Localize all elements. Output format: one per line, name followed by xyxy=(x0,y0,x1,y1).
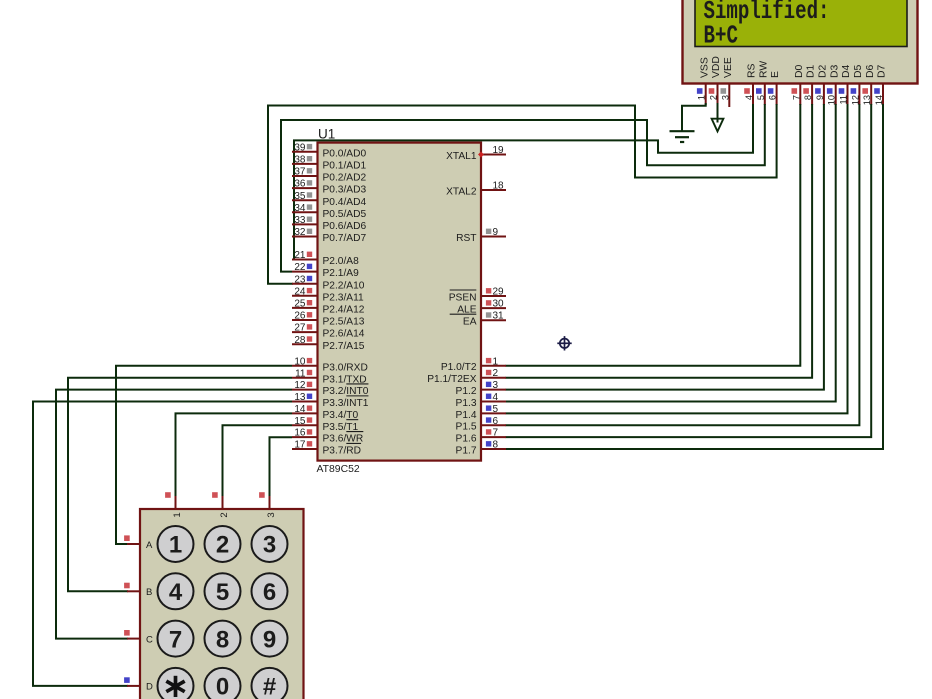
power terminal (down arrow) xyxy=(712,119,724,132)
LCD pin 10 (D3) xyxy=(835,84,837,105)
U1 left pin 27 (P2.6/A14) xyxy=(292,331,318,333)
chip U1 AT89C52 body xyxy=(318,143,482,461)
svg-text:21: 21 xyxy=(294,250,306,261)
LCD pin 14 (D7) xyxy=(882,84,884,105)
wire D4: LCD pin11 to U1 P1.4 xyxy=(506,104,848,413)
wire P3.6 to keypad col 3 xyxy=(270,437,293,497)
svg-text:P1.0/T2: P1.0/T2 xyxy=(441,362,477,373)
U1 left pin 35 (P0.4/AD4) xyxy=(292,199,318,201)
svg-text:D6: D6 xyxy=(865,64,876,78)
svg-text:P2.3/A11: P2.3/A11 xyxy=(323,292,364,303)
svg-text:3: 3 xyxy=(720,95,730,100)
svg-text:P0.3/AD3: P0.3/AD3 xyxy=(323,185,367,196)
svg-text:B: B xyxy=(146,587,152,598)
svg-text:1: 1 xyxy=(697,95,707,100)
svg-text:9: 9 xyxy=(815,95,825,100)
svg-text:35: 35 xyxy=(294,191,306,202)
svg-text:1: 1 xyxy=(493,356,499,367)
svg-text:13: 13 xyxy=(294,392,306,403)
svg-text:2: 2 xyxy=(709,95,719,100)
svg-text:32: 32 xyxy=(294,227,306,238)
U1 left pin 10 (P3.0/RXD) xyxy=(292,365,318,367)
svg-text:P2.6/A14: P2.6/A14 xyxy=(323,329,365,340)
U1 right pin 18 (XTAL2) xyxy=(481,189,506,191)
svg-text:P1.2: P1.2 xyxy=(456,386,477,397)
U1 left pin 38 (P0.1/AD1) xyxy=(292,163,318,165)
svg-text:XTAL2: XTAL2 xyxy=(446,186,477,197)
keypad body xyxy=(140,509,304,699)
svg-text:P2.4/A12: P2.4/A12 xyxy=(323,305,365,316)
LCD pin 6 (E) xyxy=(776,84,778,105)
svg-text:18: 18 xyxy=(493,181,505,192)
svg-text:11: 11 xyxy=(839,95,849,105)
keypad button 7 xyxy=(158,621,194,657)
svg-text:1: 1 xyxy=(169,532,182,559)
svg-text:P0.0/AD0: P0.0/AD0 xyxy=(323,148,367,159)
U1 left pin 17 (P3.7/RD) xyxy=(292,448,318,450)
keypad row pin C xyxy=(127,638,140,640)
U1 right pin 30 (ALE) xyxy=(481,307,506,309)
svg-text:P1.7: P1.7 xyxy=(456,445,477,456)
svg-text:25: 25 xyxy=(294,299,306,310)
svg-text:P3.0/RXD: P3.0/RXD xyxy=(323,362,368,373)
svg-text:6: 6 xyxy=(768,95,778,100)
svg-text:P0.1/AD1: P0.1/AD1 xyxy=(323,161,367,172)
U1 right pin 6 (P1.5) xyxy=(481,424,506,426)
keypad button 2 xyxy=(205,526,241,562)
svg-text:29: 29 xyxy=(493,287,505,298)
LCD pin 11 (D4) xyxy=(847,84,849,105)
LCD pin 3 (VEE) xyxy=(728,84,730,107)
svg-text:4: 4 xyxy=(493,392,499,403)
svg-text:P2.2/A10: P2.2/A10 xyxy=(323,280,365,291)
LCD pin 4 (RS) xyxy=(752,84,754,105)
svg-text:A: A xyxy=(146,540,153,551)
svg-text:3: 3 xyxy=(263,532,276,559)
svg-text:P1.4: P1.4 xyxy=(456,410,477,421)
keypad row pin D xyxy=(127,685,140,687)
wire RS: LCD pin4 to U1 P2.0 xyxy=(294,104,753,260)
LCD pin 1 (VSS) xyxy=(705,84,707,105)
svg-text:7: 7 xyxy=(493,428,499,439)
svg-text:P0.5/AD5: P0.5/AD5 xyxy=(323,209,367,220)
svg-text:38: 38 xyxy=(294,155,306,166)
svg-text:12: 12 xyxy=(850,95,860,105)
svg-text:D3: D3 xyxy=(829,64,840,78)
svg-text:P1.6: P1.6 xyxy=(456,434,477,445)
svg-text:EA: EA xyxy=(463,317,477,328)
U1 left pin 28 (P2.7/A15) xyxy=(292,343,318,345)
svg-text:P3.3/INT1: P3.3/INT1 xyxy=(323,398,369,409)
svg-text:D0: D0 xyxy=(794,64,805,78)
svg-text:8: 8 xyxy=(216,626,229,653)
U1 left pin 25 (P2.4/A12) xyxy=(292,307,318,309)
keypad button 6 xyxy=(252,573,288,609)
svg-text:XTAL1: XTAL1 xyxy=(446,151,477,162)
keypad row pin B xyxy=(127,590,140,592)
keypad button 4 xyxy=(158,573,194,609)
wire P3.4 to keypad col 1 xyxy=(176,413,293,497)
svg-text:5: 5 xyxy=(756,95,766,100)
U1 right pin 7 (P1.6) xyxy=(481,436,506,438)
svg-text:22: 22 xyxy=(294,262,306,273)
svg-text:B+C: B+C xyxy=(704,20,739,50)
U1 right pin 5 (P1.4) xyxy=(481,412,506,414)
svg-text:30: 30 xyxy=(493,299,505,310)
keypad button 1 xyxy=(158,526,194,562)
svg-text:P1.5: P1.5 xyxy=(456,422,477,433)
svg-text:P0.4/AD4: P0.4/AD4 xyxy=(323,197,367,208)
U1 left pin 11 (P3.1/TXD) xyxy=(292,377,318,379)
svg-text:15: 15 xyxy=(294,416,306,427)
keypad button 3 xyxy=(252,526,288,562)
U1 left pin 16 (P3.6/WR) xyxy=(292,436,318,438)
LCD pin 9 (D2) xyxy=(823,84,825,105)
svg-text:P2.5/A13: P2.5/A13 xyxy=(323,317,365,328)
svg-text:16: 16 xyxy=(294,428,306,439)
keypad row pin A xyxy=(127,543,140,545)
wire D7: LCD pin14 to U1 P1.7 xyxy=(506,104,884,449)
wire RW: LCD pin5 to U1 P2.1 xyxy=(281,104,765,272)
svg-text:9: 9 xyxy=(263,626,276,653)
keypad button star xyxy=(158,668,194,699)
wire D0: LCD pin7 to U1 P1.0 xyxy=(506,104,801,366)
keypad button 8 xyxy=(205,621,241,657)
U1 left pin 14 (P3.4/T0) xyxy=(292,412,318,414)
svg-text:P2.7/A15: P2.7/A15 xyxy=(323,341,365,352)
U1 right pin 3 (P1.2) xyxy=(481,389,506,391)
svg-text:RST: RST xyxy=(456,233,476,244)
svg-text:U1: U1 xyxy=(318,127,335,142)
wire D3: LCD pin10 to U1 P1.3 xyxy=(506,104,836,401)
U1 right pin 29 (PSEN) xyxy=(481,295,506,297)
svg-text:6: 6 xyxy=(493,416,499,427)
svg-text:26: 26 xyxy=(294,311,306,322)
U1 left pin 24 (P2.3/A11) xyxy=(292,295,318,297)
keypad button hash xyxy=(252,668,288,699)
LCD pin 13 (D6) xyxy=(870,84,872,105)
svg-text:0: 0 xyxy=(216,674,229,699)
svg-text:14: 14 xyxy=(874,95,884,105)
svg-text:13: 13 xyxy=(862,95,872,105)
svg-text:C: C xyxy=(146,634,153,645)
keypad column pin 2 xyxy=(222,496,224,509)
svg-text:D: D xyxy=(146,682,153,693)
U1 left pin 37 (P0.2/AD2) xyxy=(292,175,318,177)
svg-text:PSEN: PSEN xyxy=(449,292,477,303)
svg-text:P0.6/AD6: P0.6/AD6 xyxy=(323,221,367,232)
U1 left pin 21 (P2.0/A8) xyxy=(292,259,318,261)
wire P3.3 to keypad row D xyxy=(33,402,292,686)
wire E: LCD pin6 to U1 P2.2 xyxy=(268,104,777,284)
wire VSS to ground xyxy=(682,103,706,131)
svg-text:P1.3: P1.3 xyxy=(456,398,477,409)
LCD pin 2 (VDD) xyxy=(717,84,719,105)
U1 left pin 34 (P0.5/AD5) xyxy=(292,211,318,213)
svg-text:4: 4 xyxy=(744,95,754,100)
U1 left pin 13 (P3.3/INT1) xyxy=(292,400,318,402)
svg-text:2: 2 xyxy=(493,368,499,379)
svg-text:34: 34 xyxy=(294,203,306,214)
svg-text:37: 37 xyxy=(294,167,306,178)
svg-text:VDD: VDD xyxy=(711,56,722,78)
svg-text:2: 2 xyxy=(219,512,230,517)
svg-text:17: 17 xyxy=(294,440,306,451)
LCD pin 12 (D5) xyxy=(858,84,860,105)
keypad column pin 1 xyxy=(175,496,177,509)
U1 right pin 4 (P1.3) xyxy=(481,400,506,402)
svg-text:VEE: VEE xyxy=(723,57,734,78)
LCD screen xyxy=(695,0,907,47)
svg-text:9: 9 xyxy=(493,227,499,238)
svg-text:12: 12 xyxy=(294,380,306,391)
svg-text:RS: RS xyxy=(747,63,758,78)
svg-text:D5: D5 xyxy=(853,64,864,78)
wire P3.1 to keypad row B xyxy=(68,378,292,592)
wire VDD to power terminal xyxy=(717,103,719,123)
svg-text:D4: D4 xyxy=(841,64,852,78)
wire P3.2 to keypad row C xyxy=(56,390,292,639)
svg-text:10: 10 xyxy=(294,356,306,367)
svg-text:5: 5 xyxy=(216,579,229,606)
keypad button 0 xyxy=(205,668,241,699)
keypad button 5 xyxy=(205,573,241,609)
svg-text:27: 27 xyxy=(294,323,306,334)
U1 left pin 23 (P2.2/A10) xyxy=(292,283,318,285)
LCD display LCD1 body xyxy=(683,0,918,84)
svg-text:P0.2/AD2: P0.2/AD2 xyxy=(323,173,367,184)
svg-text:P3.7/RD: P3.7/RD xyxy=(323,446,362,457)
svg-text:1: 1 xyxy=(172,512,183,517)
wire P3.5 to keypad col 2 xyxy=(223,425,293,497)
svg-text:33: 33 xyxy=(294,215,306,226)
LCD pin 5 (RW) xyxy=(764,84,766,105)
svg-text:24: 24 xyxy=(294,286,306,297)
svg-text:3: 3 xyxy=(493,380,499,391)
svg-text:VSS: VSS xyxy=(699,57,710,78)
svg-text:5: 5 xyxy=(493,404,499,415)
U1 left pin 33 (P0.6/AD6) xyxy=(292,223,318,225)
U1 right pin 1 (P1.0/T2) xyxy=(481,365,506,367)
svg-text:31: 31 xyxy=(493,311,505,322)
svg-text:19: 19 xyxy=(493,145,505,156)
svg-text:6: 6 xyxy=(263,579,276,606)
svg-text:AT89C52: AT89C52 xyxy=(317,464,360,475)
wire D1: LCD pin8 to U1 P1.1 xyxy=(506,104,813,378)
wire D6: LCD pin13 to U1 P1.6 xyxy=(506,104,872,437)
U1 right pin 19 (XTAL1) xyxy=(481,154,506,156)
U1 left pin 12 (P3.2/INT0) xyxy=(292,389,318,391)
ground xyxy=(670,130,695,132)
U1 right pin 9 (RST) xyxy=(481,236,506,238)
svg-text:P1.1/T2EX: P1.1/T2EX xyxy=(427,374,476,385)
wire D2: LCD pin9 to U1 P1.2 xyxy=(506,104,824,390)
wire D5: LCD pin12 to U1 P1.5 xyxy=(506,104,860,425)
LCD pin 7 (D0) xyxy=(799,84,801,105)
U1 left pin 15 (P3.5/T1) xyxy=(292,424,318,426)
U1 right pin 31 (EA) xyxy=(481,319,506,321)
svg-text:P0.7/AD7: P0.7/AD7 xyxy=(323,233,367,244)
svg-text:14: 14 xyxy=(294,404,306,415)
svg-text:7: 7 xyxy=(169,626,182,653)
U1 left pin 39 (P0.0/AD0) xyxy=(292,151,318,153)
U1 left pin 22 (P2.1/A9) xyxy=(292,271,318,273)
svg-text:10: 10 xyxy=(827,95,837,105)
svg-text:D2: D2 xyxy=(818,64,829,78)
svg-text:#: # xyxy=(263,674,276,699)
svg-text:2: 2 xyxy=(216,532,229,559)
svg-text:RW: RW xyxy=(758,61,769,78)
svg-text:E: E xyxy=(770,71,781,78)
svg-text:36: 36 xyxy=(294,179,306,190)
svg-text:D7: D7 xyxy=(877,64,888,78)
svg-text:23: 23 xyxy=(294,274,306,285)
keypad column pin 3 xyxy=(269,496,271,509)
LCD pin 8 (D1) xyxy=(811,84,813,105)
svg-text:7: 7 xyxy=(791,95,801,100)
U1 right pin 8 (P1.7) xyxy=(481,448,506,450)
U1 left pin 36 (P0.3/AD3) xyxy=(292,187,318,189)
U1 left pin 26 (P2.5/A13) xyxy=(292,319,318,321)
svg-text:8: 8 xyxy=(493,440,499,451)
U1 left pin 32 (P0.7/AD7) xyxy=(292,236,318,238)
svg-text:3: 3 xyxy=(266,512,277,517)
cursor crosshair xyxy=(560,339,569,348)
svg-text:28: 28 xyxy=(294,335,306,346)
svg-text:4: 4 xyxy=(169,579,183,606)
svg-text:D1: D1 xyxy=(806,64,817,78)
keypad button 9 xyxy=(252,621,288,657)
wire P3.0 to keypad row A xyxy=(116,366,292,544)
svg-text:P2.0/A8: P2.0/A8 xyxy=(323,256,360,267)
svg-text:P2.1/A9: P2.1/A9 xyxy=(323,268,360,279)
U1 right pin 2 (P1.1/T2EX) xyxy=(481,377,506,379)
svg-text:39: 39 xyxy=(294,142,306,153)
svg-text:8: 8 xyxy=(803,95,813,100)
svg-text:11: 11 xyxy=(295,368,306,379)
